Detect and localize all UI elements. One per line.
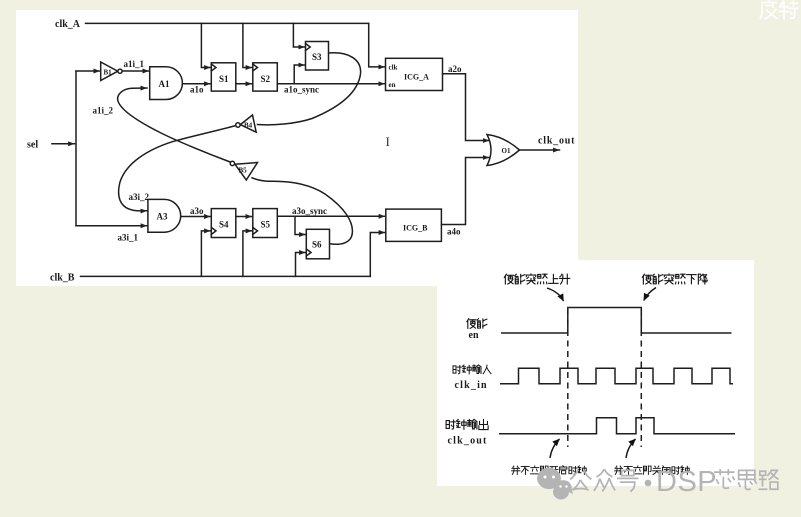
svg-text:ICG_B: ICG_B bbox=[403, 224, 428, 233]
svg-text:A1: A1 bbox=[159, 79, 170, 89]
svg-text:clk: clk bbox=[389, 64, 398, 72]
svg-text:ICG_A: ICG_A bbox=[404, 73, 429, 82]
wire sel input arrow bbox=[52, 143, 75, 145]
svg-text:a3o_sync: a3o_sync bbox=[292, 206, 327, 216]
wire sel to A3 lower input a3i_1 bbox=[76, 225, 147, 227]
wire a2o from ICG_A to OR gate O1 bbox=[443, 74, 490, 141]
wire a3i_2 from B4 to A3 upper input bbox=[119, 126, 236, 211]
flip-flop S4 bbox=[211, 209, 236, 238]
svg-text:I: I bbox=[386, 134, 390, 149]
waveform clk_out bbox=[499, 418, 735, 434]
flip-flop S6 bbox=[306, 229, 329, 258]
label does not immediately enable clock bbox=[512, 466, 520, 474]
and-gate A1 bbox=[150, 67, 183, 100]
annotation arrow to en rising edge bbox=[547, 288, 564, 301]
label does not immediately disable clock bbox=[615, 466, 623, 474]
label enable suddenly rises (shi neng tu ran shang sheng) bbox=[504, 274, 513, 284]
svg-text:en: en bbox=[469, 330, 479, 341]
svg-text:clk_out: clk_out bbox=[538, 136, 575, 147]
svg-text:clk_out: clk_out bbox=[448, 436, 488, 447]
clock gate ICG_A bbox=[386, 58, 443, 90]
watermark text gongzhonghao DSP xinsilu bbox=[571, 470, 778, 491]
wire a1o from A1 to S1 bbox=[183, 83, 211, 85]
waveform en bbox=[501, 308, 732, 334]
svg-text:S5: S5 bbox=[261, 220, 271, 230]
wire from S3 output to inverter B4 bbox=[258, 53, 361, 125]
svg-text:a1o_sync: a1o_sync bbox=[284, 85, 319, 95]
wire clk_A branch to S2 clock bbox=[243, 23, 252, 67]
svg-text:a2o: a2o bbox=[448, 64, 462, 74]
label enable suddenly falls (shi neng tu ran xia jiang) bbox=[642, 274, 651, 284]
wire a3o_sync from S5 to ICG_B bbox=[277, 215, 385, 217]
wire sel to inverter B1 bbox=[76, 70, 100, 72]
dashed marker line at en falling edge bbox=[640, 309, 642, 447]
wire a1o_sync branch up to S3 data input bbox=[294, 65, 305, 84]
wire clk_B horizontal rail bbox=[81, 275, 371, 277]
svg-text:clk_A: clk_A bbox=[55, 19, 81, 30]
svg-text:clk_in: clk_in bbox=[455, 380, 488, 391]
wire a4o from ICG_B to OR gate O1 bbox=[442, 158, 490, 225]
annotation arrow to clk_out near enable point bbox=[550, 439, 560, 458]
watermark wechat icon bbox=[537, 468, 573, 500]
flip-flop S1 bbox=[211, 63, 236, 91]
svg-text:a1i_1: a1i_1 bbox=[124, 59, 145, 69]
annotation arrow to clk_out near disable point bbox=[626, 439, 636, 458]
wire clk_A horizontal rail bbox=[86, 22, 369, 24]
wire a1i_1 from B1 to A1 bbox=[122, 70, 149, 72]
svg-text:S4: S4 bbox=[219, 220, 229, 230]
schematic panel background bbox=[16, 10, 578, 286]
wire clk_B branch to S6 clock bbox=[296, 253, 306, 277]
wire clk_A branch to S1 clock bbox=[201, 23, 210, 67]
svg-text:S3: S3 bbox=[312, 52, 322, 62]
wire clk_A branch to S3 clock bbox=[293, 23, 304, 47]
annotation arrow to en falling edge bbox=[644, 288, 656, 301]
wire clk_B branch to S5 clock bbox=[243, 231, 252, 277]
wire clk_B to ICG_B en pin bbox=[370, 233, 385, 277]
clock gate ICG_B bbox=[386, 209, 442, 241]
timing diagram panel background bbox=[437, 260, 754, 486]
wire a1i_2 from B5 to A1 lower input bbox=[118, 88, 231, 162]
svg-text:a3i_1: a3i_1 bbox=[118, 233, 139, 243]
svg-text:a1i_2: a1i_2 bbox=[93, 106, 114, 116]
wire clk_out output bbox=[520, 149, 560, 151]
inverter B4 bbox=[236, 115, 257, 132]
svg-text:clk_B: clk_B bbox=[50, 273, 75, 284]
svg-text:S2: S2 bbox=[261, 74, 271, 84]
wire sel vertical trunk bbox=[75, 71, 77, 226]
svg-text:a4o: a4o bbox=[447, 227, 461, 237]
label shi-neng (enable) bbox=[467, 319, 476, 329]
wire S1 to S2 bbox=[236, 83, 252, 85]
svg-text:A3: A3 bbox=[157, 212, 168, 222]
svg-text:a1o: a1o bbox=[190, 85, 204, 95]
svg-text:O1: O1 bbox=[502, 147, 511, 155]
wire a3o_sync branch down to S6 data input bbox=[295, 216, 306, 234]
wire clk_B branch to S4 clock bbox=[201, 231, 210, 277]
flip-flop S3 bbox=[306, 42, 329, 71]
svg-text:a3i_2: a3i_2 bbox=[129, 192, 150, 202]
wire S4 to S5 bbox=[236, 216, 252, 218]
and-gate A3 bbox=[148, 199, 181, 232]
wire from S6 output to inverter B5 bbox=[252, 178, 352, 244]
svg-text:B4: B4 bbox=[244, 122, 253, 130]
watermark top right (pi te) white text bbox=[760, 1, 797, 19]
svg-text:DSP: DSP bbox=[656, 466, 717, 498]
inverter B1 bbox=[101, 62, 122, 81]
waveform clk_in bbox=[500, 368, 733, 384]
svg-text:S1: S1 bbox=[219, 74, 229, 84]
svg-text:sel: sel bbox=[27, 140, 38, 151]
svg-text:B1: B1 bbox=[104, 69, 113, 77]
inverter B5 bbox=[230, 161, 257, 180]
label shi-zhong-shu-ru (clock input) bbox=[453, 366, 461, 374]
svg-text:B5: B5 bbox=[239, 167, 248, 175]
flip-flop S2 bbox=[253, 63, 277, 91]
dashed marker line at en rising edge bbox=[567, 309, 569, 447]
wire a1o_sync from S2 to ICG_A en pin bbox=[277, 83, 385, 85]
svg-text:a3o: a3o bbox=[190, 206, 204, 216]
svg-text:S6: S6 bbox=[312, 240, 322, 250]
wire a3o from A3 to S4 bbox=[181, 216, 211, 218]
or-gate O1 bbox=[487, 135, 520, 166]
flip-flop S5 bbox=[253, 209, 277, 238]
wire clk_A to ICG_A clk pin bbox=[369, 23, 385, 67]
svg-text:en: en bbox=[389, 81, 396, 89]
label shi-zhong-shu-chu (clock output) bbox=[446, 420, 455, 429]
